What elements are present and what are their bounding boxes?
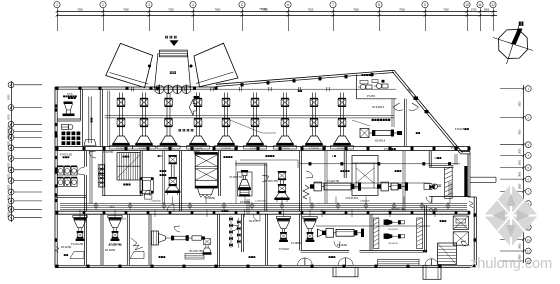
column	[343, 265, 346, 268]
column	[235, 147, 238, 150]
wall x=242.5 vertical lower	[241, 214, 243, 252]
riser pipes x=163.5	[162, 151, 164, 204]
label 排风机房	[265, 155, 274, 157]
column	[79, 87, 82, 90]
top dimension line lower	[57, 15, 497, 17]
left grid tick row G	[14, 157, 43, 159]
dim tick	[479, 14, 482, 17]
column	[103, 211, 106, 214]
chiller room column line y=164	[300, 163, 460, 165]
bottom double door 2	[425, 259, 432, 266]
svg-text:6000: 6000	[8, 194, 10, 200]
arrow adjacent mark	[194, 96, 200, 98]
label KT-8A/茶室	[384, 148, 396, 151]
dim tick	[148, 14, 151, 17]
staircase bottom-right	[438, 243, 457, 265]
svg-text:7500: 7500	[215, 9, 221, 12]
north label text	[519, 22, 524, 26]
canopy left wing inner edge	[110, 73, 149, 85]
column	[151, 265, 154, 268]
left grid tick row F	[14, 147, 43, 149]
svg-text:KT-2A/3.5D: KT-2A/3.5D	[71, 243, 84, 246]
right grid bubble	[525, 201, 531, 207]
left grid bubble G	[8, 156, 14, 162]
exterior wall right protrusion	[470, 176, 496, 178]
svg-text:KT04A/B: KT04A/B	[455, 128, 465, 131]
svg-text:N=0.55 B=1: N=0.55 B=1	[346, 197, 359, 200]
column	[241, 83, 244, 86]
column	[55, 131, 58, 134]
chiller unit x=310	[310, 182, 361, 191]
left block wall x=100	[99, 89, 101, 146]
column	[474, 213, 477, 216]
dim tick	[332, 14, 335, 17]
grid bubble 3	[146, 2, 152, 8]
svg-text:3: 3	[148, 3, 150, 7]
riser pipes left chase	[89, 151, 91, 204]
exterior wall lower right	[473, 197, 475, 267]
corridor wall lower	[55, 213, 470, 215]
dim tick	[492, 14, 495, 17]
grid line 10 vertical	[467, 8, 469, 31]
svg-text:3600: 3600	[520, 101, 522, 107]
bottom bump-out room 1	[333, 267, 358, 277]
wall y=196 under stairs	[103, 194, 142, 196]
left grid tick row K	[14, 191, 43, 193]
column	[55, 123, 58, 126]
left grid bubble E	[8, 135, 14, 141]
canopy right wing column dot	[190, 65, 193, 68]
vertical feed right	[454, 154, 456, 165]
column	[377, 162, 380, 165]
vertical AHU column x=172.7	[165, 155, 180, 195]
svg-text:7: 7	[332, 3, 334, 7]
entrance steps	[159, 50, 187, 57]
column	[345, 147, 348, 150]
column	[83, 147, 86, 150]
right grid bubble	[525, 115, 531, 121]
column	[257, 211, 260, 214]
left grid bubble D	[8, 129, 14, 135]
AHU duct chase with X braces	[195, 153, 217, 198]
label KT04A/B 茶室	[455, 128, 469, 131]
pump room unit	[360, 129, 402, 138]
column	[407, 265, 410, 268]
svg-text:3600: 3600	[520, 159, 522, 165]
column	[55, 199, 58, 202]
right dim tick	[523, 116, 525, 118]
svg-text:7500: 7500	[77, 9, 83, 12]
grid line 4 vertical	[193, 8, 195, 31]
svg-text:KT-01F/5D: KT-01F/5D	[309, 148, 319, 150]
exterior wall right sloped	[394, 70, 463, 152]
column	[389, 211, 392, 214]
left grid bubble N	[8, 215, 14, 221]
label 分水器	[63, 156, 70, 158]
canopy right wing inner edge	[196, 72, 234, 84]
left grid tick row J	[14, 180, 43, 182]
column	[103, 147, 106, 150]
valve	[229, 224, 232, 227]
right dim tick	[523, 166, 525, 168]
column	[422, 162, 425, 165]
hall label 门厅	[170, 71, 176, 74]
svg-text:XD-02/5D: XD-02/5D	[105, 249, 116, 252]
hall direction arrow	[189, 99, 196, 116]
wall x=425.5 right zone	[424, 206, 426, 251]
svg-text:3600: 3600	[520, 183, 522, 189]
column	[55, 167, 58, 170]
vertical AHU column x=282	[274, 171, 289, 202]
svg-text:6000: 6000	[8, 114, 10, 120]
column	[55, 170, 58, 173]
column	[169, 211, 172, 214]
svg-text:zhulong.com: zhulong.com	[470, 256, 552, 272]
wall y=164 room top	[235, 162, 267, 164]
top dimension line upper	[57, 11, 497, 13]
label 吊2F	[158, 155, 164, 158]
svg-text:KT-08/5D: KT-08/5D	[205, 197, 215, 200]
left grid tick row N	[14, 217, 43, 219]
right dim tick	[523, 202, 525, 204]
column	[309, 162, 312, 165]
svg-text:L-800x320: L-800x320	[360, 201, 370, 203]
pipe chase labels	[90, 118, 92, 123]
hall inner top line	[57, 88, 396, 90]
dim tick	[424, 14, 427, 17]
grid line 9 vertical	[425, 8, 427, 31]
entrance arrow	[170, 41, 178, 46]
column	[87, 265, 90, 268]
exterior wall bottom	[55, 266, 476, 268]
column	[56, 265, 59, 268]
column	[126, 87, 129, 90]
column	[213, 147, 216, 150]
column	[56, 147, 59, 150]
column	[56, 87, 59, 90]
entrance double doors	[155, 85, 164, 94]
left grid tick row C	[14, 123, 43, 125]
svg-text:KT/1D: KT/1D	[435, 184, 442, 187]
column	[323, 147, 326, 150]
valve	[229, 217, 232, 220]
door	[232, 226, 238, 232]
left grid tick row E	[14, 137, 43, 139]
toilet label	[68, 97, 76, 99]
top-right room wall vertical	[356, 75, 358, 99]
louver marks on slope	[414, 97, 429, 114]
right grid bubble	[525, 86, 531, 92]
left grid tick row H	[14, 169, 43, 171]
left dim tick	[10, 123, 12, 125]
wall y=166 right segment	[429, 164, 453, 166]
bell mouth chiller lower	[318, 229, 323, 237]
label 冷冻机房	[340, 170, 349, 172]
column	[183, 265, 186, 268]
svg-text:KT-4F/5D: KT-4F/5D	[337, 244, 348, 247]
svg-text:6000: 6000	[8, 126, 10, 132]
column	[279, 147, 282, 150]
grid bubble 1	[54, 2, 60, 8]
canopy center right edge	[188, 53, 191, 88]
svg-text:8: 8	[378, 3, 380, 7]
water collector battery A	[58, 166, 78, 187]
column	[55, 108, 58, 111]
right grid tick	[500, 239, 524, 241]
electrical panel block	[62, 132, 81, 146]
svg-text:7200: 7200	[443, 9, 449, 12]
door wiggle right	[469, 201, 474, 208]
substation label	[372, 119, 391, 121]
door	[393, 107, 403, 111]
pipe rack lines	[60, 203, 467, 205]
valve right room	[429, 185, 437, 212]
right grid tick	[500, 88, 524, 90]
grid bubble 9	[422, 2, 428, 8]
column	[448, 162, 451, 165]
door	[194, 152, 200, 158]
riser pipes x=450	[448, 182, 450, 197]
label 洗消间	[222, 210, 229, 212]
hall mid pipe line 1	[105, 115, 394, 117]
left grid bubble B	[8, 105, 14, 111]
wall x=103 vertical	[102, 151, 104, 196]
column	[411, 211, 414, 214]
hall left riser pair	[107, 91, 109, 147]
svg-text:XD-07/5: XD-07/5	[249, 220, 258, 223]
valve	[237, 220, 240, 223]
dim tick	[192, 14, 195, 17]
column	[367, 211, 370, 214]
column	[55, 238, 58, 241]
right grid tick	[500, 250, 524, 252]
right dim tick	[523, 178, 525, 180]
column	[215, 265, 218, 268]
column	[257, 147, 260, 150]
right grid bubble	[525, 248, 531, 254]
fresh air shaft room	[238, 172, 253, 196]
label 回风竖井	[223, 156, 232, 158]
dim tick	[241, 14, 244, 17]
right dim tick	[523, 87, 525, 89]
left grid tick row D	[14, 131, 43, 133]
label 库房	[416, 132, 420, 134]
grid line 3 vertical	[149, 8, 151, 31]
hatched duct band right	[445, 167, 453, 199]
column	[83, 211, 86, 214]
svg-text:7500: 7500	[399, 9, 405, 12]
bottom double door 0	[298, 258, 305, 265]
column	[125, 211, 128, 214]
right grid tick	[500, 116, 524, 118]
left grid bubble L	[8, 198, 14, 204]
wall x=266 vertical	[264, 164, 266, 211]
right grid bubble	[525, 237, 531, 243]
svg-text:4: 4	[192, 3, 194, 7]
right grid tick	[500, 214, 524, 216]
hall duct column x=255	[244, 93, 267, 150]
svg-text:7200: 7200	[168, 9, 174, 12]
label 新风机房	[361, 74, 370, 76]
door	[426, 197, 432, 203]
svg-text:9: 9	[424, 3, 426, 7]
svg-text:6000: 6000	[8, 211, 10, 217]
exterior wall left	[54, 87, 56, 267]
wall x=430 vertical	[428, 151, 430, 167]
fan coil unit x=310	[303, 217, 317, 243]
svg-text:7500: 7500	[353, 9, 359, 12]
small pump right	[424, 184, 441, 190]
fan coil unit x=115	[108, 216, 122, 242]
label 4F风井	[434, 157, 441, 160]
svg-text:L-1250x400: L-1250x400	[150, 201, 161, 203]
svg-text:6000: 6000	[8, 151, 10, 157]
column	[323, 211, 326, 214]
dim tick	[466, 14, 469, 17]
label 清扫间	[160, 170, 167, 172]
right grid tick	[500, 203, 524, 205]
wall x=266.5 vertical lower	[265, 214, 267, 265]
column	[468, 211, 471, 214]
duct outline hall right	[352, 156, 378, 196]
right grid tick	[500, 167, 524, 169]
right grid bubble	[525, 189, 531, 195]
svg-text:XD-06T/5: XD-06T/5	[388, 243, 398, 245]
column	[55, 193, 58, 196]
left grid bubble K	[8, 189, 14, 195]
grid bubble 8	[376, 2, 382, 8]
column	[301, 211, 304, 214]
left dim tick	[10, 169, 12, 171]
label 水泵房	[395, 170, 402, 172]
svg-text:KT-6/3.5D: KT-6/3.5D	[103, 151, 114, 154]
corridor door 1	[167, 204, 174, 211]
column	[389, 147, 392, 150]
right grid tick	[500, 190, 524, 192]
svg-text:6000: 6000	[8, 203, 10, 209]
svg-text:PY-05/6: PY-05/6	[367, 96, 376, 98]
column	[279, 265, 282, 268]
branch pipes middle	[235, 160, 237, 204]
entrance label 主入口	[165, 36, 176, 39]
wall x=218.5 vertical lower	[217, 214, 219, 267]
wall x=150 lower	[148, 214, 150, 265]
svg-text:KT-01F/5D: KT-01F/5D	[193, 148, 203, 150]
hall duct column x=314	[303, 93, 326, 150]
canopy left wing roof	[106, 43, 153, 87]
door	[306, 171, 313, 177]
left dim tick	[10, 191, 12, 193]
valve	[229, 230, 232, 233]
svg-text:7200: 7200	[308, 9, 314, 12]
label 更衣间	[159, 256, 166, 258]
right grid tick	[500, 178, 524, 180]
valve	[237, 240, 240, 243]
hall wall tick pairs	[130, 87, 132, 91]
left dim tick	[10, 130, 12, 132]
label 风管井	[123, 156, 130, 158]
column	[279, 211, 282, 214]
chiller unit x=377	[377, 182, 408, 191]
right dim tick	[523, 144, 525, 146]
svg-text:1700: 1700	[471, 9, 477, 12]
column	[215, 87, 218, 90]
svg-text:KT-01F/5D: KT-01F/5D	[280, 148, 290, 150]
left grid bubble J	[8, 178, 14, 184]
column	[473, 265, 476, 268]
top-right room wall horizontal	[357, 98, 397, 100]
door	[409, 107, 419, 111]
column	[169, 147, 172, 150]
svg-text:M: M	[66, 184, 68, 188]
right grid bubble	[525, 176, 531, 182]
column	[55, 104, 58, 107]
electrical box below stairs	[140, 178, 153, 200]
wall x=345 vertical partial	[343, 151, 345, 178]
column	[125, 147, 128, 150]
column	[455, 147, 458, 150]
hatched riser band A	[374, 218, 379, 249]
svg-text:6000: 6000	[8, 94, 10, 100]
north arrow cross line 1	[493, 38, 533, 51]
right dim tick	[523, 238, 525, 240]
toilet exhaust fan	[63, 102, 75, 117]
column	[191, 147, 194, 150]
left dim tick	[10, 84, 12, 86]
grid line 7 vertical	[333, 8, 335, 31]
small pumps top-right 2	[374, 83, 388, 88]
svg-text:11: 11	[478, 3, 482, 7]
left grid tick row L	[14, 200, 43, 202]
north arrow compass octagon	[499, 30, 528, 59]
canopy center left edge	[155, 53, 159, 88]
door	[174, 227, 180, 233]
svg-text:6000: 6000	[8, 132, 10, 138]
horizontal AHU unit left-lower	[152, 231, 205, 245]
hall duct column x=285	[274, 93, 297, 150]
equipment supply drops	[79, 210, 81, 218]
svg-text:XF-04/B2.5: XF-04/B2.5	[372, 106, 385, 109]
left grid bubble C	[8, 121, 14, 127]
left grid tick row M	[14, 208, 43, 210]
label 工具间	[160, 174, 167, 176]
wall y=238 right	[429, 196, 470, 198]
column	[301, 147, 304, 150]
grid line 6 vertical	[288, 8, 290, 31]
door	[144, 190, 150, 196]
pipe chase verticals	[88, 97, 90, 144]
water collector battery B	[98, 165, 104, 188]
stair label 楼梯间	[123, 183, 130, 185]
grid bubble 2	[100, 2, 106, 8]
grid line 1 vertical	[57, 8, 59, 31]
right grid bubble	[525, 165, 531, 171]
exterior wall top sloped	[216, 70, 394, 84]
left grid bubble H	[8, 167, 14, 173]
north arrow cross line 2	[507, 24, 520, 64]
door leaf cabinet 1	[70, 252, 84, 259]
dim tick	[102, 14, 105, 17]
wall x=141 vertical	[139, 151, 141, 196]
label 门厅	[64, 254, 68, 256]
door	[89, 152, 96, 158]
svg-text:6000: 6000	[8, 184, 10, 190]
left wall door wiggle	[56, 247, 60, 253]
valve	[237, 227, 240, 230]
grid bubble 11	[477, 2, 483, 8]
column	[433, 147, 436, 150]
exterior wall right chase	[467, 154, 469, 197]
